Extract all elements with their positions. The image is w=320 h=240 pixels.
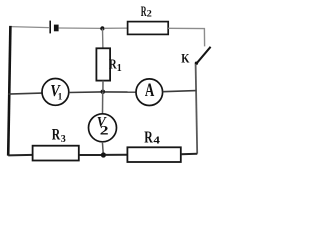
wire top junction to R2	[104, 27, 127, 29]
wire R1 bottom to middle junction	[102, 81, 104, 92]
svg-text:1: 1	[117, 63, 122, 74]
voltmeter V1 circle	[42, 79, 69, 106]
svg-text:2: 2	[147, 9, 152, 19]
battery short thick plate	[54, 25, 59, 32]
wire R4 to bottom-right corner	[181, 153, 198, 156]
svg-text:K: K	[181, 50, 190, 65]
resistor R4 box	[127, 147, 180, 162]
junction dot top node	[100, 26, 104, 30]
svg-text:R: R	[52, 127, 61, 144]
wire right edge below switch to bottom-right corner	[196, 64, 198, 154]
wire V1 to middle junction	[69, 91, 101, 94]
switch K blade	[196, 47, 211, 64]
junction dot bottom node	[101, 152, 106, 157]
svg-text:1: 1	[58, 92, 63, 102]
ammeter A circle	[136, 79, 163, 106]
wire left edge	[8, 26, 10, 156]
svg-text:3: 3	[61, 133, 66, 145]
resistor R3 box	[33, 146, 79, 161]
voltmeter V2 circle	[89, 114, 117, 142]
wire middle junction to ammeter A	[105, 91, 136, 93]
svg-text:4: 4	[153, 134, 160, 146]
wire top-left corner to battery	[10, 27, 49, 28]
svg-text:A: A	[145, 80, 155, 101]
switch K pivot blob	[195, 62, 198, 65]
wire battery to top junction	[59, 27, 102, 29]
junction dot middle node	[101, 90, 106, 95]
wire R3 to bottom junction	[79, 154, 101, 156]
wire A to right edge	[163, 91, 197, 92]
wire middle left edge to V1	[8, 93, 42, 94]
resistor R2 box	[128, 22, 169, 35]
wire V2 bottom to bottom junction	[101, 142, 104, 155]
wire top junction down to R1	[102, 29, 104, 49]
wire R2 to top-right corner down to switch top contact	[168, 28, 204, 46]
wire bottom-left corner to R3	[8, 154, 32, 157]
battery long thin plate	[49, 21, 51, 34]
svg-text:R: R	[144, 128, 153, 147]
wire bottom junction to R4	[106, 154, 128, 156]
wire middle junction down to V2	[102, 92, 104, 114]
svg-text:2: 2	[100, 123, 109, 138]
resistor R1 box	[96, 48, 110, 80]
